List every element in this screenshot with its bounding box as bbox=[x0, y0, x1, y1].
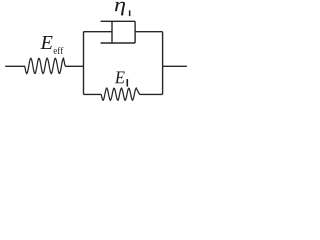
spring E_eff bbox=[25, 58, 65, 73]
wire bottom branch left bbox=[84, 93, 102, 95]
label eta1 subscript stroke bbox=[129, 10, 131, 16]
label E_eff "E" bbox=[40, 36, 52, 49]
wire bottom branch right bbox=[140, 93, 163, 95]
damper eta1 piston bbox=[111, 21, 113, 44]
wire left lead bbox=[5, 65, 25, 67]
node left junction bar bbox=[83, 32, 85, 95]
spring E1 bbox=[101, 88, 139, 100]
label E_eff "eff" subscript bbox=[54, 47, 64, 54]
wire top branch left bbox=[84, 31, 113, 33]
label E1 "E" bbox=[115, 72, 125, 84]
wire top branch right bbox=[135, 31, 163, 33]
damper eta1 cylinder bbox=[101, 21, 136, 43]
node right junction bar bbox=[162, 32, 164, 95]
wire spring to left node bbox=[65, 65, 83, 67]
label eta1 eta glyph bbox=[115, 2, 125, 16]
label E1 subscript stroke bbox=[127, 79, 129, 87]
wire right lead bbox=[163, 65, 187, 67]
